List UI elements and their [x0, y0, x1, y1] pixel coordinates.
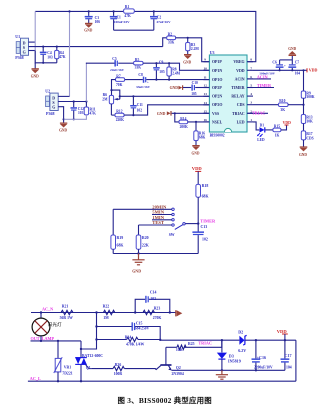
svg-text:16: 16 [204, 118, 208, 122]
svg-text:CDS: CDS [306, 136, 313, 140]
svg-text:47K: 47K [59, 55, 66, 59]
svg-text:OP1P: OP1P [212, 60, 222, 64]
svg-text:270K: 270K [153, 316, 162, 320]
IC U3 right pin names [231, 60, 244, 124]
svg-text:102: 102 [150, 297, 156, 301]
ground port below C3 [84, 23, 92, 32]
switch SW [169, 208, 199, 237]
svg-text:11: 11 [204, 75, 207, 79]
wire: C1-C2 bottom link [114, 29, 154, 31]
svg-text:102: 102 [137, 109, 143, 113]
pir sensor U2 [45, 88, 58, 115]
zener diode D2 6.2V [238, 329, 256, 353]
svg-text:日光灯: 日光灯 [48, 321, 62, 328]
svg-text:TEST: TEST [152, 220, 164, 225]
svg-text:R15: R15 [274, 124, 280, 128]
resistor R19 [111, 209, 124, 253]
svg-text:G: G [23, 49, 26, 54]
svg-text:OP2O: OP2O [212, 103, 222, 107]
svg-text:R18: R18 [202, 184, 209, 188]
wire: top supply rail [35, 11, 256, 61]
svg-text:C14: C14 [150, 291, 157, 295]
ground port below U1 [31, 63, 39, 79]
svg-text:CDS: CDS [237, 103, 245, 107]
svg-text:2200uF/10V: 2200uF/10V [254, 365, 273, 369]
power port VDD timer section [192, 166, 203, 185]
svg-text:GND: GND [183, 60, 191, 64]
ground earth below R20 [132, 254, 144, 274]
node OUT_LAMP [31, 336, 82, 342]
capacitor C14 [135, 291, 170, 313]
svg-text:GND: GND [288, 47, 296, 51]
svg-text:R24: R24 [125, 335, 132, 339]
svg-text:R6: R6 [103, 93, 108, 97]
ground port below CDS [299, 147, 307, 157]
ground port left of OP2P pin 12 [170, 85, 183, 90]
wire: C6-C7 ground link [280, 59, 293, 61]
svg-text:R25: R25 [188, 342, 195, 346]
capacitor C10 [183, 81, 209, 96]
svg-text:C5: C5 [112, 57, 117, 61]
svg-text:C15: C15 [136, 322, 143, 326]
svg-text:C13: C13 [201, 225, 208, 229]
IC U3 right pin stubs and numbers [247, 58, 253, 122]
power port VDD right of pin 7 [302, 68, 317, 73]
svg-text:GND: GND [192, 152, 200, 156]
wire: VSS row pin 15 [172, 112, 210, 114]
node TRIAC pin 2 [247, 110, 268, 115]
wire: U2 gate drop [58, 107, 63, 120]
svg-text:ACIN: ACIN [235, 77, 245, 81]
node 5MIN [152, 210, 172, 215]
svg-text:R21: R21 [62, 305, 69, 309]
svg-text:GND: GND [157, 112, 166, 116]
svg-text:D1: D1 [260, 123, 265, 127]
svg-text:VR1: VR1 [64, 366, 71, 370]
IC U3 left pin stubs and numbers [203, 58, 209, 122]
capacitor C16 [252, 340, 273, 371]
svg-text:220K: 220K [116, 118, 124, 122]
resistor R26 [92, 363, 156, 376]
svg-text:47uF/16V: 47uF/16V [156, 20, 171, 24]
svg-text:TRIAC: TRIAC [252, 110, 266, 115]
svg-text:TRIAC: TRIAC [198, 341, 212, 346]
svg-text:TIMER: TIMER [257, 83, 272, 88]
pir sensor U1 [15, 34, 28, 60]
wire: C5 branch from U2 source [86, 63, 114, 102]
svg-text:3K: 3K [280, 108, 285, 112]
diode D3 IN5819 [217, 339, 241, 371]
svg-text:C3: C3 [95, 16, 100, 20]
svg-text:GND: GND [132, 268, 141, 273]
svg-text:C17: C17 [285, 353, 292, 358]
svg-text:C11: C11 [137, 103, 143, 107]
svg-text:5MIN: 5MIN [152, 210, 164, 215]
svg-text:VSS: VSS [212, 112, 219, 116]
node AC_L [28, 376, 296, 381]
svg-text:684/250V: 684/250V [135, 327, 150, 331]
svg-text:R20: R20 [142, 236, 149, 240]
svg-text:100R: 100R [114, 372, 123, 376]
capacitor C13 [192, 225, 207, 253]
capacitor C11 [130, 95, 143, 116]
svg-text:R22: R22 [103, 305, 110, 309]
svg-text:LED: LED [257, 138, 265, 142]
svg-text:VDD: VDD [283, 121, 291, 125]
svg-text:C9: C9 [159, 60, 164, 64]
svg-text:TIMER: TIMER [231, 86, 244, 90]
svg-text:GND: GND [31, 74, 39, 78]
svg-text:103: 103 [47, 55, 53, 59]
resistor R21 [60, 305, 73, 320]
svg-text:C7: C7 [295, 61, 300, 65]
capacitor C9 [153, 60, 165, 80]
resistor R8 [167, 62, 181, 81]
svg-text:47K: 47K [124, 14, 131, 18]
ground earth below D3 [216, 370, 228, 379]
svg-text:200K: 200K [180, 125, 188, 129]
svg-text:U3: U3 [210, 50, 215, 55]
svg-text:VDD: VDD [277, 329, 288, 334]
svg-text:R10: R10 [279, 99, 285, 103]
node 1MIN [152, 215, 172, 220]
svg-text:68K: 68K [117, 243, 124, 247]
power port at end of AC_N row [176, 310, 183, 316]
resistor R14 [175, 113, 210, 129]
svg-text:OP2P: OP2P [212, 86, 222, 90]
svg-text:102: 102 [202, 238, 208, 242]
svg-text:U1: U1 [15, 34, 20, 39]
resistor R3 [186, 38, 200, 55]
svg-text:R5: R5 [135, 58, 140, 62]
svg-text:15: 15 [204, 109, 208, 113]
resistor R10 [253, 99, 304, 112]
wire: U2 drain drop from rail [58, 10, 70, 96]
svg-text:300K: 300K [306, 95, 314, 99]
power port VDD for LED [281, 121, 291, 130]
LED D1 [253, 122, 265, 142]
svg-text:2M: 2M [102, 98, 108, 102]
svg-text:R2: R2 [168, 33, 173, 37]
svg-text:104: 104 [286, 365, 292, 369]
svg-text:R7: R7 [116, 74, 121, 78]
resistor R15 [265, 124, 281, 137]
ground port above C7 [288, 47, 296, 60]
svg-text:2.2M: 2.2M [191, 47, 199, 51]
svg-text:10: 10 [204, 66, 208, 70]
ground port left of VSS pin 15 [157, 111, 171, 116]
svg-text:33K: 33K [135, 66, 142, 70]
svg-text:LED: LED [237, 120, 245, 124]
svg-text:Q2: Q2 [176, 366, 181, 370]
capacitor C17 [281, 340, 292, 370]
capacitor C12 [71, 100, 85, 120]
svg-text:68K: 68K [202, 194, 209, 198]
capacitor C5 [110, 57, 134, 72]
svg-text:OP2N: OP2N [212, 95, 222, 99]
svg-text:470K 1/4W: 470K 1/4W [126, 342, 144, 346]
photoresistor R17 CDS [301, 131, 313, 147]
wire: OP1N net to pin 10 [143, 63, 209, 70]
wire: VDD net row bottom [255, 339, 296, 381]
wire: U2 source row [58, 101, 86, 103]
resistor R12 [111, 110, 124, 122]
resistor R13 [301, 115, 313, 131]
resistor R16 [194, 121, 206, 146]
svg-text:SW: SW [169, 233, 175, 237]
svg-text:105: 105 [159, 70, 165, 74]
svg-text:33uF/16V: 33uF/16V [136, 85, 151, 89]
varistor VR1 [54, 341, 73, 383]
svg-text:图 3、BISS0002 典型应用图: 图 3、BISS0002 典型应用图 [118, 396, 212, 405]
svg-text:12: 12 [204, 84, 208, 88]
wire: U1 pin stubs and drop [29, 11, 36, 63]
svg-text:2.4M: 2.4M [172, 71, 180, 75]
wire: timer section ground rail [113, 252, 198, 254]
svg-text:VDD: VDD [236, 69, 245, 73]
node ACIN pin 6 [247, 74, 271, 79]
resistor R4 [55, 46, 66, 63]
svg-text:R12: R12 [116, 110, 122, 114]
svg-text:56R 1W: 56R 1W [60, 316, 73, 320]
svg-text:10K: 10K [306, 119, 313, 123]
svg-text:+: + [147, 80, 149, 84]
wire: main row from R24 junction to D2 [160, 339, 239, 341]
wire: OP1O row pin 11 [146, 79, 209, 81]
svg-text:Q1: Q1 [86, 366, 91, 370]
capacitor C2 [150, 10, 171, 30]
svg-text:BISS0002: BISS0002 [210, 134, 225, 138]
svg-text:105: 105 [191, 92, 197, 96]
svg-text:7D221: 7D221 [62, 371, 72, 375]
svg-text:OP1N: OP1N [212, 69, 222, 73]
svg-text:R26: R26 [115, 363, 122, 367]
node AC_N [31, 307, 176, 314]
node TIMER pin 5 [247, 83, 274, 88]
svg-text:47K: 47K [90, 112, 97, 116]
svg-text:68K: 68K [199, 136, 206, 140]
svg-text:100uF/10V: 100uF/10V [114, 20, 130, 24]
resistor R1 [124, 5, 135, 18]
resistor R24 [95, 335, 161, 346]
svg-text:P368: P368 [46, 111, 54, 116]
svg-text:C10: C10 [192, 81, 198, 85]
wire: OP2O feedback to pin 14 [124, 105, 209, 115]
wire: OP2N row pin 13 [119, 95, 210, 97]
wire: U1 source row to R2 [29, 46, 163, 48]
svg-text:103: 103 [78, 111, 84, 115]
transistor Q2 2N3904 [156, 347, 285, 376]
resistor R2 [163, 33, 176, 47]
svg-text:R23: R23 [154, 306, 161, 310]
svg-text:70K: 70K [116, 83, 123, 87]
svg-text:10K: 10K [176, 348, 183, 352]
capacitor C7 [288, 60, 300, 76]
resistor R11 [64, 100, 96, 119]
capacitor C1 [110, 10, 130, 30]
svg-text:IN5819: IN5819 [228, 358, 241, 363]
svg-text:GND: GND [299, 153, 307, 157]
svg-text:ACIN: ACIN [257, 74, 268, 79]
svg-text:VREG: VREG [233, 60, 244, 64]
wire: VDD row pin 7 [253, 69, 304, 71]
capacitor C6 [259, 60, 286, 76]
svg-text:AC_N: AC_N [42, 307, 53, 312]
wire: AC_N tap down to C15 R24 [81, 313, 97, 350]
svg-text:13: 13 [204, 92, 208, 96]
svg-text:+: + [284, 64, 286, 68]
svg-text:D2: D2 [238, 329, 243, 334]
svg-text:G: G [52, 104, 55, 109]
svg-text:106: 106 [95, 20, 101, 24]
resistor R7 [112, 74, 125, 90]
svg-text:22uF/16V: 22uF/16V [110, 68, 125, 72]
svg-text:6.2V: 6.2V [238, 348, 246, 353]
capacitor C4 [40, 46, 53, 64]
svg-text:1K: 1K [275, 133, 280, 137]
potentiometer R6 [102, 89, 120, 115]
svg-text:TIMER: TIMER [200, 218, 216, 223]
svg-text:+C1: +C1 [114, 16, 121, 20]
capacitor C3 [85, 10, 100, 24]
svg-text:C6: C6 [272, 61, 277, 65]
IC U3 left pin names [212, 60, 223, 124]
svg-text:AC_L: AC_L [30, 376, 41, 381]
svg-text:VDD: VDD [192, 166, 203, 171]
svg-text:GND: GND [84, 29, 92, 33]
svg-text:GND: GND [170, 86, 179, 90]
resistor R22 [103, 305, 115, 320]
resistor R23 [143, 306, 161, 320]
svg-text:RELAY: RELAY [231, 95, 244, 99]
svg-text:GND: GND [59, 128, 67, 132]
svg-text:VDD: VDD [309, 68, 318, 73]
svg-text:OP1O: OP1O [212, 78, 222, 82]
svg-text:104: 104 [295, 72, 301, 76]
svg-text:C8: C8 [138, 73, 143, 77]
wire: OP1P net to pin 9 [176, 37, 210, 62]
svg-text:NSEL: NSEL [212, 120, 223, 124]
ground port below R16 [192, 146, 200, 156]
node TEST [139, 220, 172, 225]
power port VDD bottom [277, 329, 288, 340]
wire: U1 ground row [35, 62, 57, 64]
ground port below R3 [183, 55, 191, 65]
node TIMER [197, 218, 216, 225]
svg-text:TRIAC: TRIAC [232, 112, 245, 116]
capacitor C15 [95, 322, 160, 341]
svg-text:P368: P368 [15, 55, 23, 60]
svg-text:33K: 33K [168, 40, 175, 44]
svg-text:R14: R14 [180, 117, 186, 121]
triac Q1 BAT12-600C [75, 341, 103, 383]
svg-text:2N3904: 2N3904 [172, 372, 184, 376]
svg-text:1M: 1M [103, 316, 109, 320]
svg-text:14: 14 [204, 101, 208, 105]
svg-text:R1: R1 [125, 5, 130, 9]
svg-text:+C16: +C16 [257, 355, 266, 360]
node 20MIN [113, 205, 172, 210]
resistor R9 [301, 70, 314, 114]
resistor R5 [134, 58, 143, 70]
resistor R18 [196, 184, 209, 232]
lamp 日光灯 [32, 313, 62, 341]
svg-text:22K: 22K [142, 243, 149, 247]
resistor R20 [136, 225, 149, 254]
resistor R25 [166, 340, 222, 352]
op-amp IC U3 BISS0002 [209, 50, 247, 138]
svg-text:R19: R19 [117, 236, 124, 240]
svg-text:BAT12-600C: BAT12-600C [82, 354, 103, 358]
capacitor C8 [125, 73, 151, 89]
svg-text:C2: C2 [157, 16, 162, 20]
ground port below U2 [59, 119, 67, 132]
